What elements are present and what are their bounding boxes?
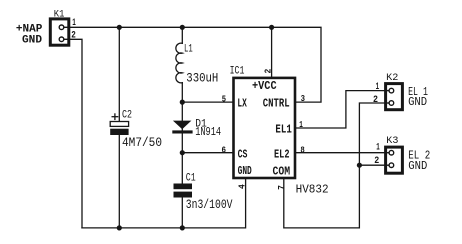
svg-text:4: 4: [238, 184, 248, 189]
svg-text:GND: GND: [22, 34, 42, 46]
svg-text:3: 3: [301, 94, 305, 104]
svg-text:GND: GND: [238, 165, 252, 178]
svg-text:K1: K1: [54, 9, 65, 20]
svg-text:2: 2: [373, 95, 378, 106]
svg-text:C1: C1: [186, 173, 196, 185]
svg-text:1: 1: [72, 18, 76, 29]
svg-text:5: 5: [222, 95, 226, 105]
svg-text:CNTRL: CNTRL: [263, 98, 290, 111]
svg-text:IC1: IC1: [230, 65, 245, 77]
svg-text:2: 2: [374, 156, 379, 167]
svg-text:EL1: EL1: [275, 124, 291, 137]
svg-text:CS: CS: [238, 149, 248, 162]
svg-text:4M7/50: 4M7/50: [122, 135, 162, 150]
svg-text:1: 1: [299, 120, 303, 130]
svg-text:6: 6: [222, 145, 227, 155]
svg-text:330uH: 330uH: [186, 71, 218, 86]
svg-text:GND: GND: [408, 160, 427, 173]
svg-text:K3: K3: [386, 136, 398, 147]
svg-text:1: 1: [376, 82, 380, 93]
svg-text:L1: L1: [184, 44, 193, 56]
svg-text:EL2: EL2: [274, 149, 290, 162]
svg-text:8: 8: [300, 145, 304, 155]
svg-text:HV832: HV832: [296, 183, 329, 197]
svg-text:GND: GND: [408, 96, 427, 109]
svg-text:1N914: 1N914: [195, 126, 221, 139]
svg-text:1: 1: [376, 142, 380, 153]
svg-text:C2: C2: [122, 110, 132, 122]
svg-text:COM: COM: [273, 166, 291, 179]
svg-text:LX: LX: [237, 98, 246, 111]
svg-text:K2: K2: [386, 73, 398, 84]
svg-text:+VCC: +VCC: [252, 80, 277, 93]
svg-text:2: 2: [263, 69, 273, 74]
svg-text:7: 7: [277, 185, 287, 190]
svg-text:3n3/100V: 3n3/100V: [186, 197, 233, 212]
svg-text:2: 2: [71, 30, 76, 41]
